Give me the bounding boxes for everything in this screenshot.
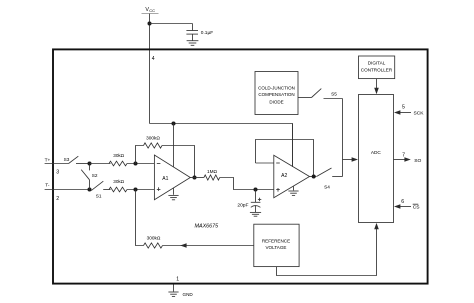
svg-text:COMPENSATION: COMPENSATION [258, 92, 294, 97]
arrow SCK into ADC [394, 110, 400, 115]
wire ADC input branch [343, 159, 353, 161]
label SCK [414, 111, 425, 117]
svg-text:MAX6675: MAX6675 [195, 224, 220, 230]
resistor R1 30k (T+) [109, 161, 127, 166]
wire supply rail [150, 124, 293, 167]
wire A1 noninverting node down [136, 190, 144, 246]
pin T- stub [45, 189, 90, 191]
wire A1 feedback left [136, 146, 144, 164]
node A1 noninverting input [134, 188, 138, 192]
svg-text:S1: S1 [96, 194, 102, 199]
svg-text:6: 6 [401, 199, 404, 205]
node A1 inverting input [134, 162, 138, 166]
pin 1 label [176, 277, 179, 283]
pin CS wire [400, 206, 411, 208]
block cold-junction compensation diode [255, 72, 298, 115]
switch S1 [91, 181, 110, 190]
svg-text:REFERENCE: REFERENCE [262, 238, 290, 243]
wire controller to ADC [376, 79, 378, 89]
svg-text:VOLTAGE: VOLTAGE [265, 245, 286, 250]
label GND [183, 292, 194, 297]
label R5 300k [147, 236, 161, 241]
resistor R2 30k (T-) [109, 187, 127, 192]
label T+ [45, 157, 51, 163]
switch S2 [81, 164, 89, 189]
pin 4 label [152, 56, 155, 62]
switch S4 [317, 168, 343, 177]
node T+ switch junction [88, 162, 92, 166]
wire A1 feedback right [162, 146, 195, 178]
wire T+ node to R1 [90, 163, 111, 165]
svg-text:0.1µF: 0.1µF [201, 30, 213, 36]
pin T+ stub [45, 163, 69, 165]
node A1 output [193, 176, 197, 180]
svg-text:CONTROLLER: CONTROLLER [361, 68, 393, 73]
block digital controller [359, 56, 395, 79]
wire A2 supply from rail [292, 124, 294, 167]
wire A2 output [310, 176, 317, 178]
svg-text:SCK: SCK [414, 111, 425, 117]
wire reference to R5 [163, 245, 254, 247]
svg-text:1: 1 [176, 277, 179, 283]
arrow SO out of ADC [404, 157, 410, 162]
block reference voltage [254, 224, 299, 266]
ground (bypass cap) [187, 41, 199, 46]
svg-text:GND: GND [183, 292, 194, 297]
arrow into ADC input [352, 157, 358, 162]
label S1 [96, 194, 102, 199]
node VCC bypass junction [148, 22, 152, 26]
arrow into ADC bottom [374, 223, 379, 229]
svg-text:S2: S2 [92, 173, 98, 178]
svg-text:S5: S5 [331, 92, 337, 97]
ground (GND pin) [168, 292, 178, 296]
label R2 30k [113, 179, 124, 184]
switch S3 [69, 156, 90, 163]
svg-text:SO: SO [414, 158, 421, 164]
svg-text:30kΩ: 30kΩ [113, 179, 124, 184]
wire VCC to bypass cap [150, 23, 193, 25]
switch S5 [312, 89, 343, 99]
ground (A2) [288, 186, 298, 195]
label R1 30k [113, 153, 124, 158]
svg-text:A1: A1 [162, 176, 168, 182]
wire R2 to A1 noninverting input [127, 189, 154, 191]
pin SCK wire [400, 112, 411, 114]
label S4 [324, 184, 330, 189]
node rail to A1 supply [172, 122, 176, 126]
value label 0.1uF [201, 30, 213, 36]
svg-text:4: 4 [152, 56, 155, 62]
label T- [45, 183, 50, 189]
resistor R5 300k [144, 243, 163, 248]
capacitor C2 20pF [251, 190, 261, 213]
svg-text:COLD-JUNCTION: COLD-JUNCTION [258, 85, 295, 90]
capacitor C1 0.1uF [186, 24, 198, 41]
svg-text:7: 7 [402, 152, 405, 158]
svg-text:V: V [145, 7, 149, 13]
label S2 [92, 173, 98, 178]
MAX6675 package outline [53, 49, 428, 283]
label MAX6675 [195, 224, 220, 230]
arrow CS into ADC [394, 204, 400, 209]
wire A1 supply [173, 124, 175, 167]
pin 3 label [56, 170, 59, 176]
wire VCC down to pin 4 [149, 14, 151, 124]
pin GND stub [173, 285, 175, 292]
wire A1 output [190, 177, 204, 179]
wire A2 feedback loop [256, 140, 314, 177]
node filter cap junction [254, 188, 258, 192]
resistor R3 300k (A1 feedback) [144, 143, 163, 148]
VCC supply terminal [142, 7, 159, 14]
pin 5 label [402, 104, 405, 110]
svg-text:1MΩ: 1MΩ [207, 169, 218, 174]
svg-text:DIODE: DIODE [269, 99, 283, 104]
svg-text:300kΩ: 300kΩ [147, 236, 161, 241]
arrow reference drive [180, 243, 186, 248]
svg-text:T-: T- [45, 183, 50, 189]
svg-text:ADC: ADC [371, 150, 382, 155]
pin SO wire [394, 159, 405, 161]
svg-text:A2: A2 [281, 173, 287, 179]
wire reference to ADC bottom [277, 229, 377, 276]
label CS [413, 204, 421, 210]
pin 2 label [56, 196, 59, 202]
wire R4 to A2 noninverting input [220, 178, 274, 190]
svg-text:T+: T+ [45, 157, 51, 163]
svg-text:DIGITAL: DIGITAL [368, 61, 386, 66]
ground (A1) [168, 188, 178, 200]
label S3 [64, 157, 70, 162]
svg-text:S3: S3 [64, 157, 70, 162]
pin 6 label [401, 199, 404, 205]
op-amp A1 [154, 155, 190, 200]
node T- switch junction [88, 188, 92, 192]
svg-text:S4: S4 [324, 184, 330, 189]
wire diode to S5 [298, 97, 312, 99]
svg-text:3: 3 [56, 170, 59, 176]
label R3 300k [146, 135, 160, 140]
polarity plus (C2) [258, 198, 261, 201]
ground (C2) [250, 212, 261, 216]
op-amp A2 [274, 155, 310, 198]
svg-text:CC: CC [149, 8, 155, 13]
block ADC [359, 95, 394, 223]
wire R1 to A1 inverting input [127, 163, 154, 165]
pin 7 label [402, 152, 405, 158]
label 20pF [237, 203, 248, 209]
svg-text:300kΩ: 300kΩ [146, 135, 160, 140]
svg-text:2: 2 [56, 196, 59, 202]
svg-text:30kΩ: 30kΩ [113, 153, 124, 158]
label S5 [331, 92, 337, 97]
node A2 output [312, 175, 316, 179]
svg-text:20pF: 20pF [237, 203, 248, 209]
label R4 1M [207, 169, 218, 174]
label SO [414, 158, 421, 164]
svg-text:5: 5 [402, 104, 405, 110]
wire switches to ADC input [342, 99, 344, 177]
svg-text:CS: CS [413, 205, 421, 211]
resistor R4 1M [204, 175, 220, 180]
arrow into ADC top [374, 88, 379, 94]
